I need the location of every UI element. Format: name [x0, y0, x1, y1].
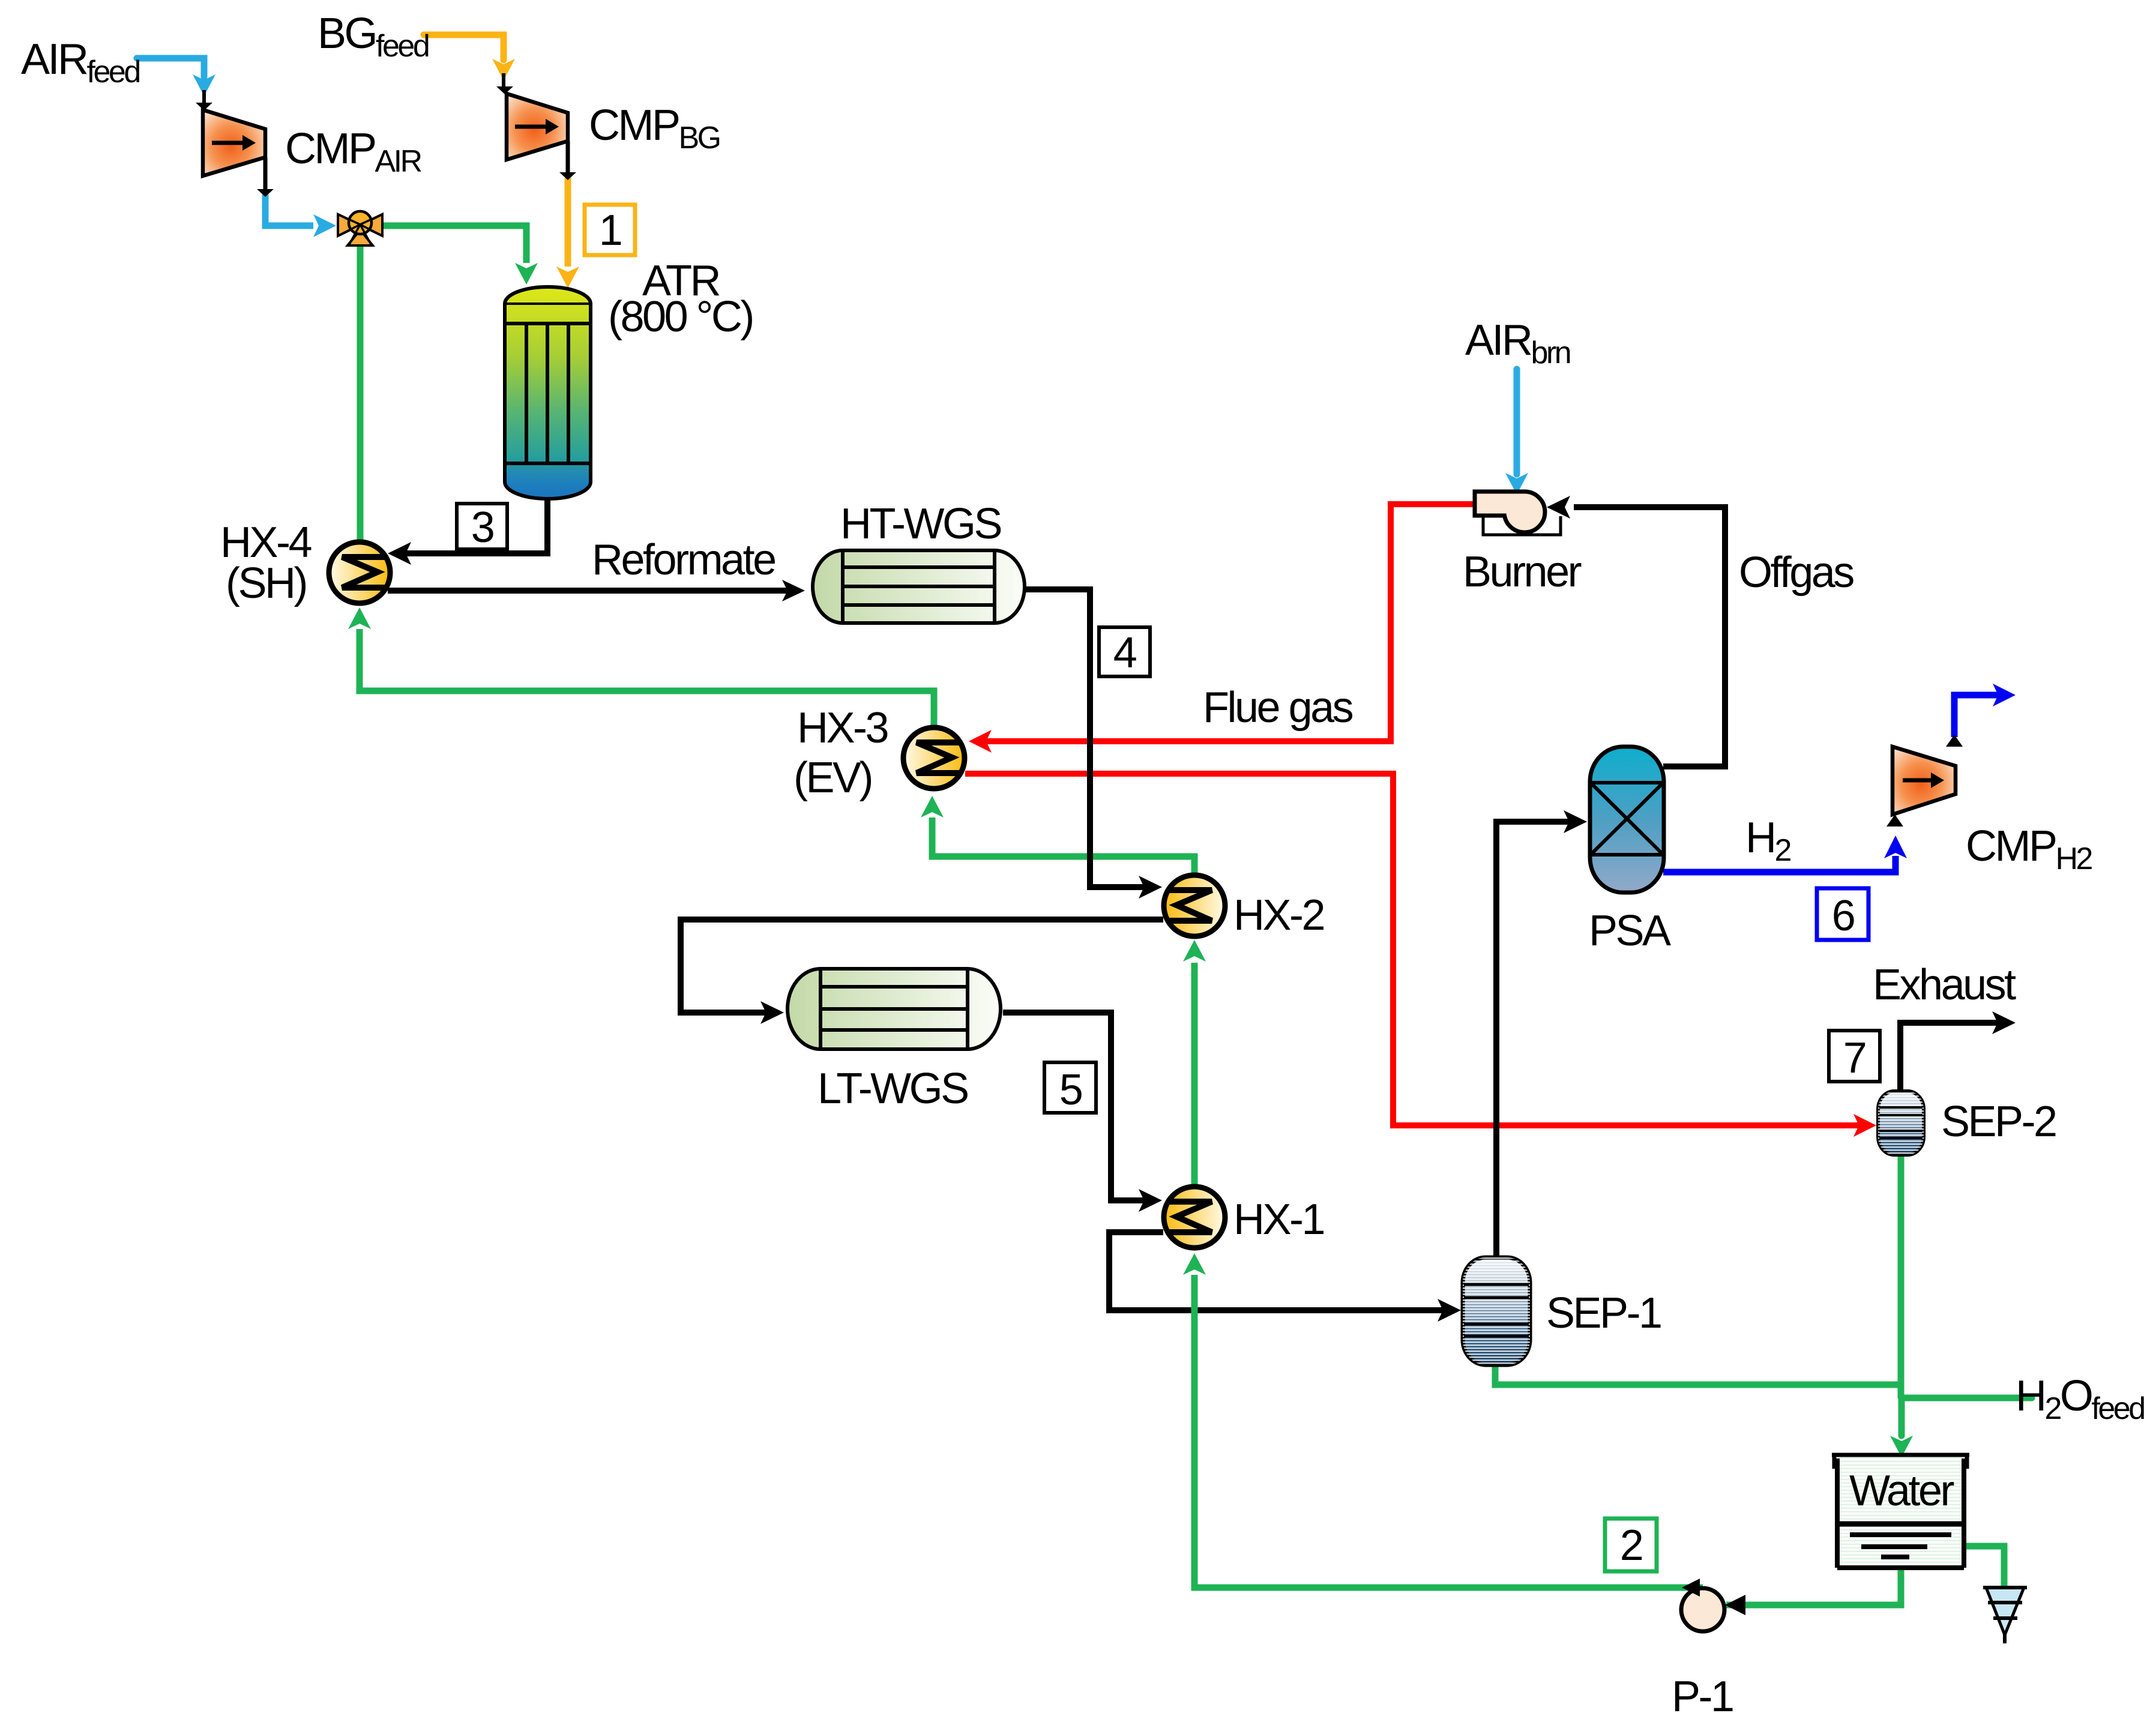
- svg-text:2: 2: [1620, 1522, 1642, 1570]
- wire Flue gas Burner to HX-3: [969, 504, 1475, 753]
- adsorber PSA: [1589, 747, 1671, 955]
- svg-text:(EV): (EV): [793, 754, 872, 802]
- wire water tank to pump: [1726, 1567, 1901, 1605]
- reactor LT-WGS: [787, 969, 1001, 1113]
- wire H2 PSA to CMP_H2: [1663, 814, 1907, 872]
- wire water tank to drain: [1962, 1546, 2004, 1586]
- wire BG feed to CMP_BG: [424, 35, 515, 94]
- svg-text:HT-WGS: HT-WGS: [840, 500, 1001, 548]
- svg-text:7: 7: [1843, 1034, 1865, 1082]
- wire H2 CMP_H2 to product out: [1946, 684, 2016, 747]
- wire stream 5 HX-2 to LT-WGS: [681, 920, 1163, 1024]
- wire AIR feed to CMP_AIR: [137, 58, 215, 110]
- wire Reformate HX-4 to HT-WGS: [388, 580, 805, 601]
- svg-text:HX-1: HX-1: [1233, 1196, 1323, 1244]
- water tank: [1832, 1455, 1969, 1568]
- svg-text:Offgas: Offgas: [1739, 549, 1853, 597]
- wire H2O feed to water tank: [1890, 1398, 2032, 1457]
- svg-text:5: 5: [1059, 1066, 1082, 1114]
- wire HX-1 to SEP-1: [1109, 1232, 1461, 1322]
- wire SEP-1 to PSA: [1496, 810, 1587, 1259]
- heat exchanger HX-2: [1164, 875, 1323, 939]
- svg-text:SEP-2: SEP-2: [1941, 1098, 2056, 1146]
- svg-text:(800 °C): (800 °C): [608, 293, 753, 341]
- wire stream 4 HT-WGS to HX-2: [1023, 589, 1162, 899]
- stream box 3: [457, 504, 507, 552]
- stream box 5: [1044, 1062, 1096, 1114]
- separator SEP-2: [1878, 1091, 2056, 1155]
- drain: [1983, 1588, 2027, 1643]
- wire CMP_AIR to valve: [265, 194, 336, 237]
- compressor CMP_BG: [507, 94, 720, 180]
- wire SEP-1 condensate: [1495, 1365, 1898, 1385]
- compressor CMP_AIR: [203, 110, 422, 197]
- reactor HT-WGS: [813, 500, 1025, 623]
- svg-text:(SH): (SH): [226, 559, 306, 607]
- svg-text:AIRbrn: AIRbrn: [1465, 316, 1570, 370]
- compressor CMP_H2: [1893, 747, 2092, 876]
- wire SEP-2 condensate: [1898, 1155, 1905, 1398]
- wire water pump to HX-1: [1183, 1253, 1703, 1588]
- wire steam HX-3 to HX-4: [348, 607, 934, 727]
- wire AIR brn to Burner: [1505, 369, 1528, 495]
- heat exchanger HX-4: [220, 519, 390, 607]
- stream box 7: [1829, 1031, 1880, 1082]
- heat exchanger HX-3: [793, 704, 965, 802]
- svg-text:Flue gas: Flue gas: [1203, 684, 1353, 732]
- separator SEP-1: [1463, 1257, 1661, 1365]
- stream box 6: [1817, 888, 1868, 940]
- svg-text:6: 6: [1832, 892, 1854, 940]
- svg-text:CMPAIR: CMPAIR: [285, 125, 422, 179]
- stream box 4: [1099, 627, 1150, 677]
- svg-text:CMPH2: CMPH2: [1966, 822, 2092, 876]
- pump P-1: [1672, 1579, 1745, 1713]
- svg-text:LT-WGS: LT-WGS: [818, 1065, 968, 1113]
- wire stream 3 ATR outlet to HX-4: [388, 499, 547, 565]
- svg-text:H2: H2: [1745, 814, 1791, 868]
- svg-text:PSA: PSA: [1589, 907, 1671, 955]
- burner: [1463, 492, 1582, 596]
- heat exchanger HX-1: [1164, 1187, 1323, 1248]
- svg-text:HX-3: HX-3: [797, 704, 887, 752]
- wire valve to HX-4 top: [357, 245, 364, 543]
- wire stream 1 CMP_BG to ATR: [556, 178, 579, 288]
- svg-text:Water: Water: [1849, 1467, 1954, 1515]
- svg-text:HX-2: HX-2: [1233, 891, 1323, 939]
- wire Exhaust SEP-2 out: [1900, 1011, 2016, 1092]
- svg-text:1: 1: [599, 206, 621, 254]
- wire steam HX-2 to HX-3: [921, 796, 1194, 875]
- svg-text:H2Ofeed: H2Ofeed: [2016, 1372, 2144, 1426]
- stream box 1: [585, 205, 635, 255]
- stream box 2: [1605, 1519, 1657, 1571]
- reactor ATR: [505, 257, 753, 499]
- svg-text:BGfeed: BGfeed: [318, 10, 429, 64]
- svg-text:Reformate: Reformate: [592, 536, 775, 584]
- svg-text:AIRfeed: AIRfeed: [21, 35, 139, 89]
- svg-text:P-1: P-1: [1672, 1673, 1733, 1713]
- wire Offgas PSA to Burner: [1547, 496, 1725, 766]
- svg-text:SEP-1: SEP-1: [1546, 1289, 1661, 1337]
- wire water HX-1 to HX-2: [1183, 940, 1206, 1185]
- svg-text:3: 3: [471, 504, 493, 552]
- wire flue gas HX-3 to SEP-2: [965, 774, 1876, 1137]
- svg-text:CMPBG: CMPBG: [589, 101, 720, 155]
- valve mixing air steam: [338, 211, 382, 245]
- svg-text:Exhaust: Exhaust: [1873, 961, 2016, 1009]
- wire valve to ATR steam air feed: [382, 226, 538, 284]
- wire LT-WGS to HX-1: [1003, 1013, 1162, 1212]
- svg-text:4: 4: [1113, 629, 1136, 677]
- svg-text:Burner: Burner: [1463, 548, 1582, 596]
